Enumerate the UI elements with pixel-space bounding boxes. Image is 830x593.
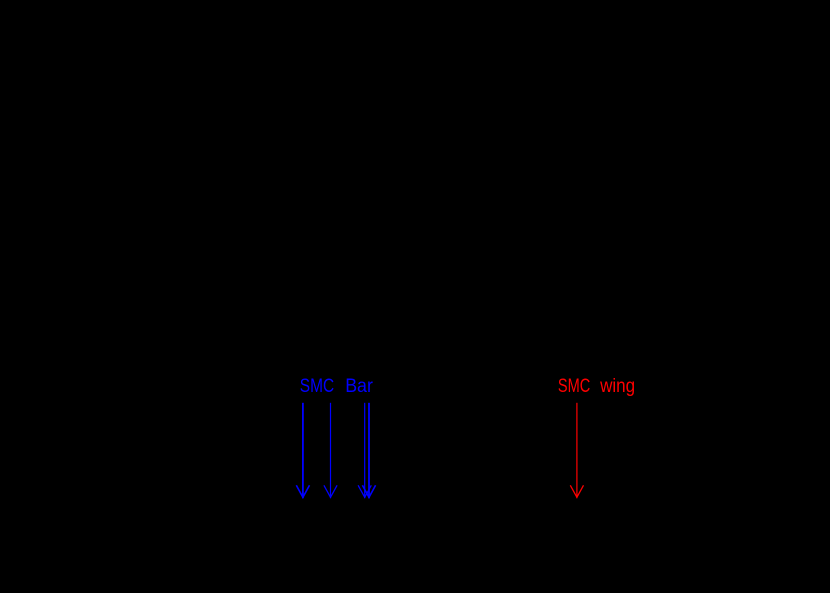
label SMC wing (red) bbox=[558, 376, 635, 397]
label SMC Bar (blue) bbox=[300, 376, 374, 397]
svg-text:Bar: Bar bbox=[345, 376, 373, 397]
arrow blue thin 2 bbox=[324, 403, 337, 498]
svg-text:SMC: SMC bbox=[558, 376, 590, 397]
arrow blue thick 4 bbox=[362, 403, 375, 498]
arrow blue thin 3 bbox=[358, 403, 371, 498]
svg-text:SMC: SMC bbox=[300, 376, 334, 397]
arrow blue thick 1 bbox=[296, 403, 309, 498]
arrow red bbox=[570, 403, 583, 498]
svg-text:wing: wing bbox=[599, 376, 635, 397]
